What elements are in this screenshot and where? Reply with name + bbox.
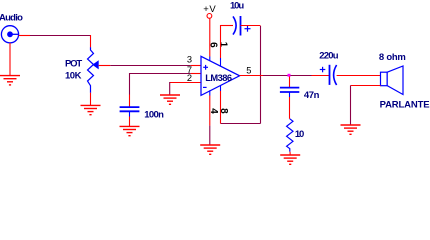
svg-text:8: 8	[218, 108, 229, 114]
svg-text:6: 6	[208, 42, 219, 48]
wire op-amp output pin 5 to junction	[240, 75, 330, 77]
svg-text:POT: POT	[65, 58, 82, 69]
op-amp plus input mark	[203, 65, 208, 70]
capacitor C3 47n	[280, 88, 299, 92]
wire pot bottom to ground	[90, 93, 92, 106]
wire op-amp pin 2 to ground	[170, 82, 201, 95]
svg-text:10K: 10K	[65, 70, 82, 81]
ground (audio jack)	[0, 76, 20, 85]
capacitor C2 10u (straight plate)	[240, 16, 242, 36]
wire pot wiper to op-amp pin 3	[99, 65, 201, 67]
wire 220u to speaker	[337, 75, 381, 77]
wire junction to 47n	[289, 77, 291, 88]
op-amp pin 4 stub	[209, 90, 211, 95]
ground (pin 4)	[200, 145, 220, 154]
svg-text:Audio: Audio	[0, 13, 23, 24]
capacitor C2 10u (curved plate)	[233, 16, 236, 34]
svg-text:2: 2	[187, 73, 192, 83]
ground (speaker)	[341, 125, 361, 134]
svg-text:47n: 47n	[304, 90, 320, 101]
resistor R2 10	[287, 119, 293, 152]
wire op-amp pin 4 to ground	[209, 96, 211, 145]
capacitor C2 plus mark	[245, 26, 251, 32]
wire 10u right lead down to pin 8	[221, 26, 261, 124]
speaker LS1 body	[381, 72, 388, 86]
capacitor C4 220u (curved plate)	[334, 65, 337, 85]
capacitor C3 bottom lead	[289, 92, 291, 97]
wire op-amp pin 7 to 100n capacitor	[130, 73, 202, 107]
potentiometer R1 10K body	[88, 47, 94, 92]
capacitor C1 bottom lead	[129, 111, 131, 116]
svg-text:LM386: LM386	[205, 73, 232, 83]
op-amp minus input mark	[203, 86, 207, 88]
svg-text:1: 1	[218, 42, 229, 48]
svg-text:8 ohm: 8 ohm	[379, 52, 406, 63]
svg-text:5: 5	[246, 66, 251, 76]
ground (pin 2)	[160, 95, 180, 104]
op-amp pin 8 stub	[220, 85, 222, 91]
op-amp pin 6 stub	[209, 57, 211, 62]
terminal +V	[207, 14, 212, 19]
svg-text:10u: 10u	[230, 1, 244, 12]
wire speaker bottom terminal to ground	[351, 86, 381, 125]
capacitor C4 220u (straight plate)	[329, 65, 331, 85]
svg-text:100n: 100n	[144, 109, 164, 120]
op-amp pin 1 stub	[220, 58, 222, 67]
junction node (output)	[288, 74, 291, 77]
wire 47n to resistor R2	[289, 97, 291, 119]
connector J1 audio input	[1, 26, 18, 43]
svg-text:PARLANTE: PARLANTE	[380, 100, 430, 111]
wire resistor R2 to ground	[289, 152, 291, 155]
ground (R2)	[280, 155, 300, 164]
wire 10u left lead to op-amp pin 1	[221, 25, 234, 58]
op-amp U1 LM386 triangle	[201, 56, 240, 95]
potentiometer R1 wiper arrow	[92, 60, 98, 69]
capacitor C4 plus mark	[320, 67, 326, 73]
wire +V to op-amp pin 6	[209, 19, 211, 57]
wire 100n to ground	[129, 117, 131, 127]
wire audio jack to ground	[9, 43, 11, 75]
ground (100n)	[120, 126, 140, 135]
capacitor C1 100n	[120, 107, 140, 111]
speaker LS1 cone	[387, 66, 403, 95]
wire audio jack to pot (pin stub red then maroon)	[19, 35, 91, 47]
svg-text:3: 3	[187, 55, 192, 65]
svg-text:4: 4	[208, 108, 219, 114]
ground (pot)	[81, 105, 101, 114]
svg-text:220u: 220u	[319, 51, 338, 62]
svg-text:10: 10	[295, 129, 304, 140]
